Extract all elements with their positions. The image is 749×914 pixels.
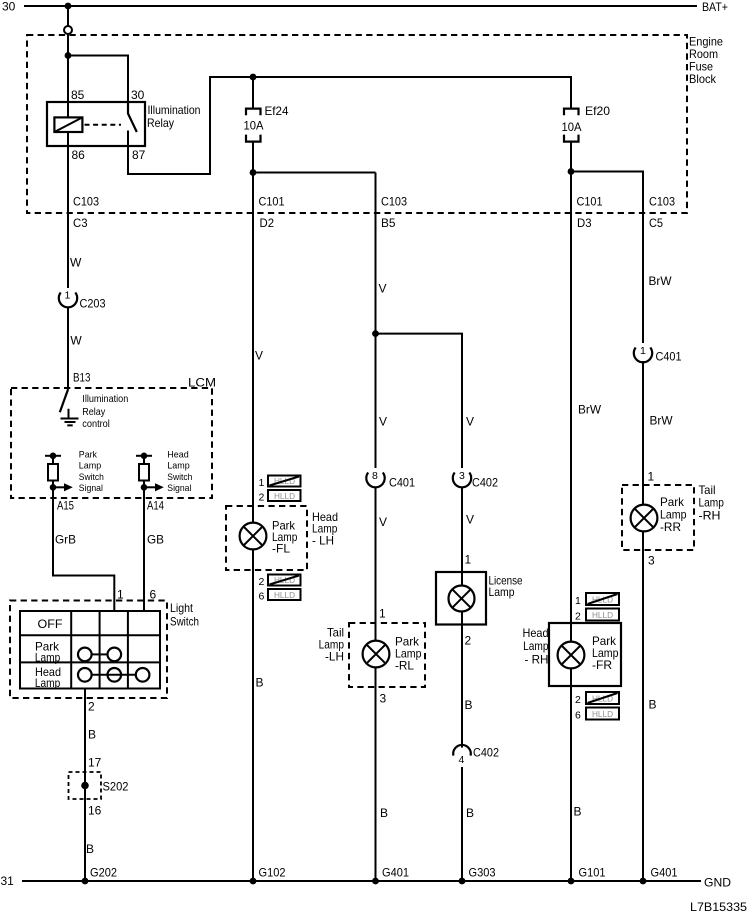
lamp license bbox=[449, 586, 475, 612]
svg-text:C103: C103 bbox=[649, 195, 675, 209]
engine room fuse block box bbox=[27, 35, 687, 213]
svg-text:31: 31 bbox=[1, 874, 15, 888]
LCM ground symbol bbox=[61, 409, 79, 426]
wire relay pin87 to fuse rail bbox=[128, 77, 253, 174]
svg-text:Head: Head bbox=[523, 626, 549, 640]
svg-text:C5: C5 bbox=[649, 216, 663, 230]
svg-text:B5: B5 bbox=[381, 216, 396, 230]
junction dot G102 bbox=[250, 878, 257, 885]
svg-text:B: B bbox=[88, 728, 96, 742]
svg-text:-LH: -LH bbox=[325, 650, 344, 664]
svg-text:1: 1 bbox=[65, 290, 71, 302]
svg-text:Park: Park bbox=[79, 449, 97, 460]
svg-text:C103: C103 bbox=[73, 195, 99, 209]
svg-text:G101: G101 bbox=[579, 866, 606, 880]
HLLD connector tag pair above park lamp FR bbox=[586, 593, 619, 621]
svg-text:L7B15335: L7B15335 bbox=[690, 900, 747, 914]
svg-text:-RR: -RR bbox=[660, 520, 681, 534]
svg-text:GB: GB bbox=[147, 533, 164, 547]
svg-text:- RH: - RH bbox=[525, 653, 549, 667]
svg-text:-FL: -FL bbox=[272, 542, 290, 556]
head lamp switch signal symbol bbox=[136, 455, 152, 457]
svg-text:85: 85 bbox=[71, 88, 85, 102]
svg-text:Signal: Signal bbox=[79, 483, 103, 494]
svg-text:2: 2 bbox=[575, 611, 581, 623]
svg-text:Light: Light bbox=[170, 601, 194, 615]
svg-text:Relay: Relay bbox=[82, 406, 106, 418]
wire 4 Ef20 to G101 bbox=[570, 142, 572, 881]
svg-text:-FR: -FR bbox=[592, 658, 612, 672]
svg-text:30: 30 bbox=[131, 88, 145, 102]
svg-text:GrB: GrB bbox=[55, 533, 76, 547]
svg-text:V: V bbox=[379, 515, 387, 529]
svg-text:10A: 10A bbox=[562, 120, 582, 134]
svg-text:A14: A14 bbox=[147, 499, 164, 513]
svg-text:6: 6 bbox=[575, 710, 581, 722]
svg-text:G401: G401 bbox=[382, 866, 409, 880]
park lamp switch signal symbol bbox=[45, 455, 61, 457]
svg-text:Lamp: Lamp bbox=[489, 585, 515, 599]
relay fixed contact bbox=[127, 131, 129, 147]
svg-text:W: W bbox=[70, 334, 82, 348]
svg-text:C203: C203 bbox=[80, 297, 106, 311]
wire A14 head signal to switch pin6 bbox=[143, 456, 145, 611]
svg-text:-RL: -RL bbox=[395, 659, 414, 673]
svg-text:OFF: OFF bbox=[38, 617, 63, 631]
svg-text:Ef24: Ef24 bbox=[265, 104, 289, 118]
license lamp box bbox=[436, 572, 486, 625]
svg-text:1: 1 bbox=[648, 470, 655, 484]
svg-text:D3: D3 bbox=[577, 216, 592, 230]
svg-text:G303: G303 bbox=[469, 866, 496, 880]
junction dot B5 branch bbox=[372, 330, 379, 337]
svg-text:Lamp: Lamp bbox=[699, 496, 725, 510]
svg-text:Signal: Signal bbox=[167, 483, 191, 494]
wire 5 C401 to G401 bbox=[642, 361, 644, 881]
wire 2 Ef24 to G102 bbox=[252, 142, 254, 881]
svg-text:B: B bbox=[86, 842, 94, 856]
svg-text:2: 2 bbox=[259, 492, 265, 504]
relay U box bbox=[47, 102, 145, 146]
LCM box bbox=[11, 388, 212, 498]
wire battery feed vertical bbox=[67, 6, 69, 288]
svg-text:Ef20: Ef20 bbox=[585, 104, 610, 118]
svg-text:G401: G401 bbox=[651, 866, 678, 880]
park row contacts bbox=[78, 648, 92, 662]
light switch box bbox=[10, 601, 167, 699]
junction dot Ef24 top bbox=[250, 74, 257, 81]
relay coil-contact dashed link bbox=[85, 124, 122, 126]
connector C401 pin1 bbox=[634, 348, 652, 363]
svg-text:HLLD: HLLD bbox=[274, 591, 295, 600]
svg-text:BrW: BrW bbox=[650, 414, 674, 428]
HLLD connector tag pair below park lamp FR bbox=[586, 692, 619, 720]
connector circle at fuse block entry bbox=[64, 26, 72, 34]
wire branch junction to C103 B5 bbox=[253, 172, 376, 174]
svg-text:S202: S202 bbox=[103, 780, 129, 794]
svg-text:Lamp: Lamp bbox=[167, 461, 189, 472]
lamp park FR bbox=[558, 642, 585, 669]
tail lamp LH box bbox=[349, 623, 425, 687]
head lamp FR box bbox=[549, 623, 621, 686]
svg-text:1: 1 bbox=[640, 345, 646, 357]
junction dot G202 bbox=[82, 878, 89, 885]
svg-text:2: 2 bbox=[259, 576, 265, 588]
svg-text:Switch: Switch bbox=[79, 472, 104, 483]
fuse Ef20 bbox=[564, 109, 579, 142]
svg-text:Lamp: Lamp bbox=[79, 461, 101, 472]
svg-text:1: 1 bbox=[259, 477, 265, 489]
relay coil bbox=[54, 117, 82, 132]
svg-text:2: 2 bbox=[88, 700, 95, 714]
junction dot Ef20 bottom bbox=[568, 168, 575, 175]
svg-text:B13: B13 bbox=[73, 371, 91, 385]
svg-text:B: B bbox=[466, 806, 474, 820]
svg-text:2: 2 bbox=[575, 694, 581, 706]
relay switch blade bbox=[128, 102, 137, 132]
svg-text:Switch: Switch bbox=[170, 615, 199, 629]
HLLD connector tag pair below park lamp FL bbox=[268, 575, 301, 601]
svg-text:D2: D2 bbox=[260, 216, 275, 230]
svg-text:G102: G102 bbox=[259, 866, 286, 880]
HLLD connector tag pair above park lamp FL bbox=[268, 476, 301, 502]
junction dot bat+ rail bbox=[65, 3, 72, 10]
fuse Ef24 bbox=[246, 109, 261, 142]
svg-text:W: W bbox=[70, 256, 82, 270]
splice S202 box bbox=[69, 772, 102, 799]
svg-text:17: 17 bbox=[88, 756, 102, 770]
svg-text:B: B bbox=[649, 698, 657, 712]
svg-text:C401: C401 bbox=[389, 476, 415, 490]
splice S202 junction dot bbox=[81, 782, 89, 790]
svg-text:C101: C101 bbox=[259, 195, 285, 209]
connector C203 bbox=[59, 293, 77, 308]
svg-text:Lamp: Lamp bbox=[35, 651, 61, 665]
svg-text:B: B bbox=[574, 805, 582, 819]
svg-text:4: 4 bbox=[459, 754, 465, 766]
svg-text:Lamp: Lamp bbox=[523, 639, 549, 653]
wire 31 bottom rail bbox=[22, 880, 701, 882]
lamp park RL bbox=[363, 641, 390, 668]
svg-text:Block: Block bbox=[689, 72, 717, 86]
svg-text:1: 1 bbox=[575, 595, 581, 607]
wire branch to license lamp bbox=[376, 334, 463, 468]
svg-text:V: V bbox=[379, 415, 387, 429]
svg-text:Head: Head bbox=[167, 449, 189, 460]
svg-text:8: 8 bbox=[372, 470, 378, 482]
svg-text:GND: GND bbox=[704, 876, 731, 890]
wire 3 C401 to G401 bbox=[375, 487, 377, 882]
svg-text:control: control bbox=[82, 418, 110, 430]
svg-text:Switch: Switch bbox=[167, 472, 192, 483]
svg-text:C101: C101 bbox=[577, 195, 603, 209]
svg-text:C3: C3 bbox=[73, 216, 88, 230]
svg-text:LCM: LCM bbox=[188, 376, 216, 390]
svg-text:HLLD: HLLD bbox=[592, 710, 613, 719]
lamp park RR bbox=[631, 505, 658, 532]
svg-text:Illumination: Illumination bbox=[148, 103, 201, 117]
wire license lamp drop bbox=[461, 487, 463, 748]
junction dot G401 mid bbox=[372, 878, 379, 885]
connector C402 pin4 dome bbox=[453, 745, 471, 756]
wire 30 top rail bbox=[24, 5, 697, 7]
svg-text:- LH: - LH bbox=[312, 534, 334, 548]
svg-text:C401: C401 bbox=[656, 350, 682, 364]
wire switch pin2 to G202 bbox=[84, 689, 86, 882]
junction dot Ef24 bottom bbox=[250, 169, 257, 176]
svg-text:V: V bbox=[255, 349, 263, 363]
lamp park FL bbox=[240, 523, 267, 550]
svg-text:B: B bbox=[465, 698, 473, 712]
svg-text:B: B bbox=[380, 806, 388, 820]
svg-text:Illumination: Illumination bbox=[82, 393, 128, 405]
connector C402 pin3 bbox=[453, 473, 471, 488]
svg-text:6: 6 bbox=[259, 590, 265, 602]
svg-text:HLLD: HLLD bbox=[592, 611, 613, 620]
junction dot relay branch bbox=[65, 52, 72, 59]
head row contacts bbox=[78, 668, 92, 682]
wire A15 park signal to switch pin1 bbox=[53, 456, 114, 611]
svg-text:Relay: Relay bbox=[147, 116, 174, 130]
svg-text:V: V bbox=[379, 282, 387, 296]
svg-text:C402: C402 bbox=[472, 476, 498, 490]
svg-text:C402: C402 bbox=[473, 746, 499, 760]
svg-text:10A: 10A bbox=[244, 119, 264, 133]
svg-text:Lamp: Lamp bbox=[35, 676, 61, 690]
tail lamp RH box bbox=[622, 485, 694, 550]
svg-text:BrW: BrW bbox=[649, 274, 673, 288]
svg-text:G202: G202 bbox=[90, 866, 117, 880]
svg-text:A15: A15 bbox=[57, 499, 74, 513]
park lamp FL box bbox=[226, 506, 307, 570]
connector C401 pin8 bbox=[366, 473, 384, 488]
svg-text:V: V bbox=[466, 513, 474, 527]
wire 3 B5 down to C401 bbox=[375, 173, 377, 469]
svg-text:B: B bbox=[256, 676, 264, 690]
svg-text:16: 16 bbox=[88, 804, 102, 818]
wire C203 to LCM bbox=[67, 307, 69, 390]
svg-text:3: 3 bbox=[459, 470, 465, 482]
svg-text:86: 86 bbox=[72, 148, 86, 162]
svg-text:1: 1 bbox=[465, 553, 472, 567]
wire branch to C103 C5 bbox=[571, 172, 643, 344]
wire below C402 to G303 bbox=[461, 767, 463, 881]
junction dot G101 bbox=[568, 878, 575, 885]
svg-text:-RH: -RH bbox=[699, 509, 721, 523]
svg-text:6: 6 bbox=[150, 588, 157, 602]
junction dot G303 bbox=[459, 878, 466, 885]
svg-text:3: 3 bbox=[380, 692, 387, 706]
svg-text:1: 1 bbox=[117, 588, 124, 602]
wire Ef24 drop bbox=[252, 77, 254, 108]
junction dot G401 right bbox=[640, 878, 647, 885]
svg-text:HLLD: HLLD bbox=[274, 492, 295, 501]
svg-text:87: 87 bbox=[132, 148, 146, 162]
svg-text:2: 2 bbox=[465, 634, 472, 648]
svg-text:V: V bbox=[466, 415, 474, 429]
svg-text:30: 30 bbox=[2, 0, 16, 14]
svg-text:C103: C103 bbox=[381, 195, 407, 209]
LCM switch blade to ground bbox=[60, 390, 68, 413]
svg-text:BAT+: BAT+ bbox=[702, 0, 728, 14]
svg-text:BrW: BrW bbox=[578, 403, 602, 417]
wire branch to relay pin30 bbox=[68, 56, 128, 103]
svg-text:1: 1 bbox=[379, 607, 386, 621]
svg-text:3: 3 bbox=[648, 554, 655, 568]
wire fuse rail to Ef20 bbox=[253, 77, 571, 108]
light switch contact table bbox=[20, 611, 160, 689]
